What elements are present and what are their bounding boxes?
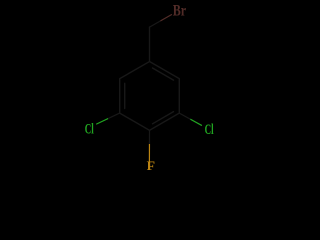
svg-text:F: F bbox=[147, 159, 155, 173]
bond to Cl right bbox=[179, 113, 201, 125]
bond ring to CH2 bbox=[149, 27, 151, 61]
svg-text:Cl: Cl bbox=[85, 122, 94, 138]
bond CH2 to Br bbox=[150, 15, 172, 28]
benzene ring bbox=[120, 62, 180, 131]
molecule: 5-(bromomethyl)-1,3-dichloro-2-fluorobenzene bbox=[0, 0, 300, 176]
bond to F bbox=[148, 130, 150, 162]
bond to Cl left bbox=[97, 113, 120, 124]
svg-text:Br: Br bbox=[173, 3, 186, 20]
aromatic inner line bottom-right bbox=[153, 112, 174, 124]
aromatic inner line top-right bbox=[153, 68, 174, 80]
svg-text:Cl: Cl bbox=[205, 122, 214, 138]
aromatic inner line left bbox=[124, 83, 126, 108]
